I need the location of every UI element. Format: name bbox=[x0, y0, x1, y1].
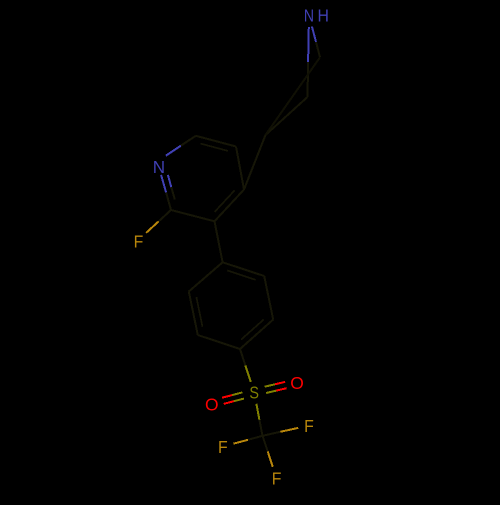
svg-text:F: F bbox=[218, 437, 228, 457]
svg-text:H: H bbox=[317, 6, 328, 26]
svg-text:F: F bbox=[304, 416, 314, 436]
svg-text:F: F bbox=[134, 232, 144, 252]
svg-text:N: N bbox=[304, 6, 314, 26]
svg-text:N: N bbox=[153, 156, 165, 177]
svg-text:O: O bbox=[205, 394, 219, 414]
svg-text:F: F bbox=[272, 469, 282, 489]
svg-text:O: O bbox=[290, 373, 304, 393]
svg-text:S: S bbox=[249, 383, 259, 403]
